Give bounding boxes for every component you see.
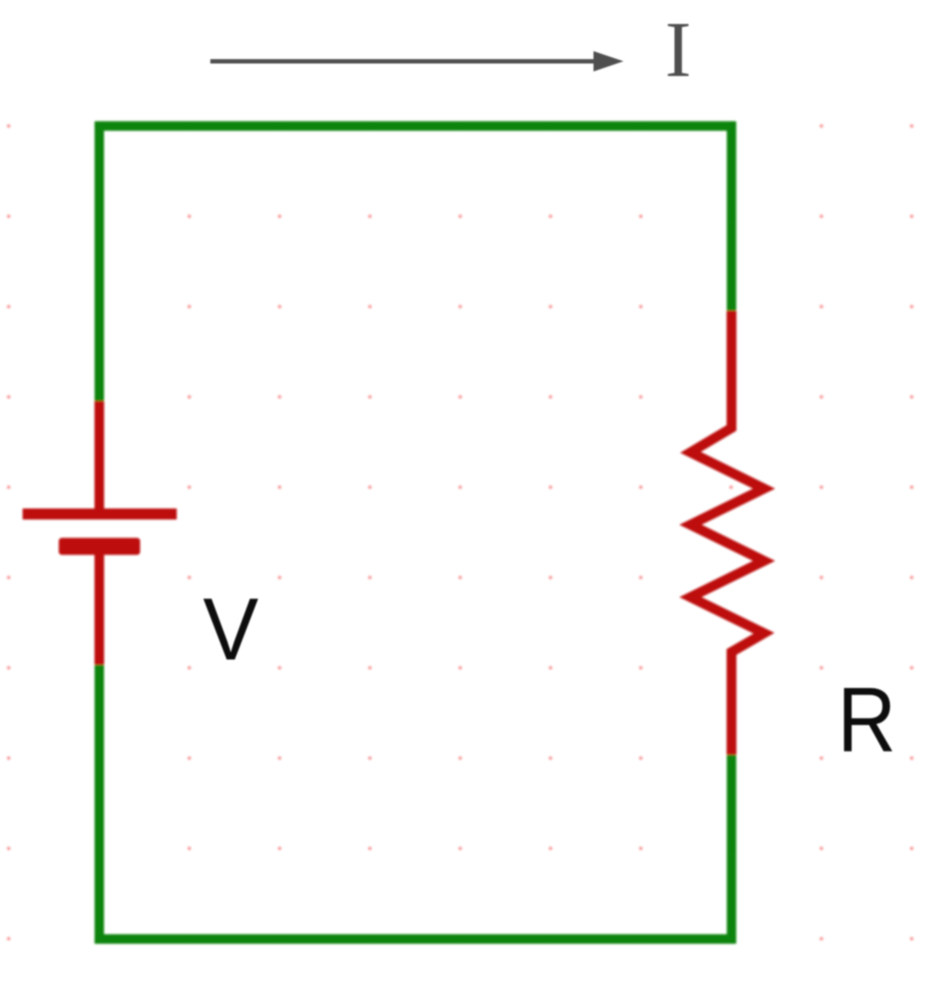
wire: right vertical, resistor bottom terminal [727, 755, 736, 944]
label I (current) [665, 7, 691, 94]
svg-text:V: V [203, 580, 259, 679]
resistor R (zigzag element) [691, 311, 765, 755]
label V (battery designator) [203, 580, 259, 679]
wire: bottom horizontal net [95, 934, 736, 943]
battery V (voltage source) [23, 401, 177, 665]
wire: right vertical, resistor top terminal [727, 122, 736, 311]
svg-text:I: I [665, 7, 691, 94]
label R (resistor designator) [837, 669, 896, 771]
wire: left vertical, battery top terminal [95, 122, 104, 402]
wire: left vertical, battery bottom terminal [95, 665, 104, 944]
wire: top horizontal net [95, 121, 736, 130]
svg-text:R: R [837, 669, 896, 771]
current direction arrow [210, 51, 623, 71]
